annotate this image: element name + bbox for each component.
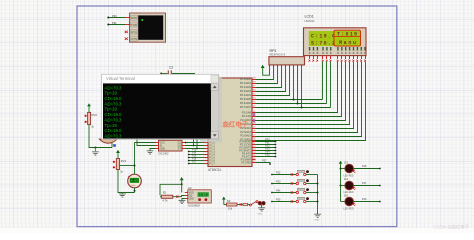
- net wire P1.5: [189, 157, 205, 159]
- pin cross: [240, 203, 242, 205]
- svg-text:P35: P35: [265, 153, 270, 157]
- wire RW vertical: [326, 62, 328, 104]
- svg-text:R2: R2: [163, 191, 167, 195]
- pin cross RTS: [125, 31, 128, 33]
- svg-text:D4: D4: [344, 177, 348, 181]
- svg-text:C:19.0: C:19.0: [311, 34, 335, 40]
- bus vertical wire: [317, 175, 319, 215]
- IC U3 body: [159, 140, 183, 151]
- net wire P1.7: [189, 163, 205, 165]
- svg-text:RV1: RV1: [121, 159, 127, 163]
- U2 pin names: [189, 191, 195, 200]
- svg-text:P35: P35: [276, 198, 281, 201]
- svg-text:Tp=19: Tp=19: [105, 123, 118, 128]
- window shadow: [219, 77, 222, 143]
- power VCC arrow: [339, 161, 343, 164]
- wire D1: [256, 62, 342, 117]
- svg-text:4.7k: 4.7k: [163, 199, 169, 203]
- svg-text:AD=70.3: AD=70.3: [105, 101, 123, 106]
- svg-text:0.85: 0.85: [131, 180, 138, 183]
- svg-text:P31: P31: [112, 21, 117, 25]
- svg-text:P17: P17: [192, 161, 197, 164]
- svg-text:AD=70.3: AD=70.3: [105, 117, 123, 122]
- LED D5: [341, 194, 381, 211]
- wire D5: [256, 62, 358, 133]
- svg-text:P2.1/A9: P2.1/A9: [242, 114, 252, 118]
- wire rp pin9 joins row P0.7: [301, 68, 303, 107]
- svg-text:Volts: Volts: [131, 184, 135, 187]
- svg-text:Manu: Manu: [339, 40, 356, 46]
- U3 left pin names: [160, 141, 166, 150]
- svg-text:P0.6/AD6: P0.6/AD6: [240, 101, 252, 105]
- node dot: [160, 73, 162, 75]
- wire rp pin8 joins row P0.6: [297, 68, 299, 103]
- P3.1 net stub: [256, 144, 276, 146]
- wire pot bottom: [118, 170, 135, 193]
- svg-text:P16: P16: [362, 165, 367, 168]
- pin CTS: [130, 36, 137, 41]
- wire rp pin4 to P0.2: [256, 68, 282, 87]
- svg-text:C3: C3: [169, 66, 173, 70]
- net wire P1.3: [189, 151, 205, 153]
- wire rp pin6 to P0.4: [256, 68, 290, 95]
- instrument VT1 body: [130, 13, 166, 42]
- wire D2: [256, 62, 346, 121]
- ground: [314, 214, 321, 217]
- svg-text:P30: P30: [112, 14, 117, 18]
- wire D3: [256, 62, 350, 125]
- svg-text:P10: P10: [362, 198, 367, 201]
- violet net-label marks on P2 wires: [253, 113, 255, 116]
- svg-text:P2.6/A14: P2.6/A14: [240, 134, 251, 138]
- pin cross CTS: [125, 38, 128, 40]
- wire pin1 to VCC: [263, 68, 270, 75]
- VCC rail: [340, 164, 342, 202]
- wire TXD net: [108, 24, 126, 26]
- scrollbar up button: [211, 83, 218, 90]
- resistor pack RP1 body: [269, 57, 305, 65]
- wire row P0.6 to LCD RW: [256, 103, 327, 105]
- svg-text:R3: R3: [227, 199, 231, 203]
- potentiometer RV1: [116, 159, 119, 170]
- wiper marks: [85, 115, 87, 117]
- vertical jog: [193, 139, 195, 146]
- svg-text:CD=19.0: CD=19.0: [105, 112, 123, 117]
- wire U3 Q1 to P1.0: [185, 142, 205, 144]
- junction: [94, 147, 96, 149]
- svg-text:GND: GND: [189, 198, 195, 201]
- instrument screen: [138, 15, 163, 39]
- push button SW2, net P33: [271, 179, 317, 184]
- svg-text:AD=70.3: AD=70.3: [105, 85, 123, 90]
- svg-text:DS18B20: DS18B20: [188, 203, 200, 207]
- pin stub TXD: [126, 24, 131, 26]
- junction: [181, 183, 183, 185]
- pin stub RXD: [126, 17, 131, 19]
- svg-text:P0.1/AD1: P0.1/AD1: [240, 81, 252, 85]
- ground: [258, 208, 265, 211]
- push button SW3, net P34: [271, 188, 317, 193]
- U2 display: [198, 192, 209, 197]
- ground: [147, 151, 154, 154]
- P3.5 net stub: [256, 156, 276, 158]
- svg-text:Tp=19: Tp=19: [105, 107, 118, 112]
- wire row P0.7 to LCD E: [256, 107, 331, 109]
- switch terminal: [249, 204, 251, 206]
- wire U3 Q2 to P1.1: [185, 145, 205, 147]
- svg-text:P2.0/A8: P2.0/A8: [242, 110, 252, 114]
- wire to R3: [224, 204, 227, 206]
- wire U3 VCC left: [135, 142, 156, 144]
- left pin stubs P1: [205, 143, 209, 164]
- wire rp pin2 to P0.0: [256, 68, 274, 79]
- pin RXD: [130, 15, 137, 20]
- sheet border frame: [77, 6, 397, 227]
- P3.0 net stub: [256, 141, 276, 143]
- left pin names: [205, 142, 207, 165]
- svg-text:P17: P17: [362, 182, 367, 185]
- power VCC arrow: [180, 177, 184, 180]
- net wire P1.6: [189, 160, 205, 162]
- svg-text:CD=19.0: CD=19.0: [105, 96, 123, 101]
- power VCC arrow: [116, 150, 120, 153]
- junction: [185, 142, 187, 144]
- wire wiper to meter line: [120, 165, 135, 167]
- blue origin marker: [113, 144, 116, 147]
- ground: [179, 200, 186, 203]
- svg-text:LM016L: LM016L: [305, 19, 316, 23]
- svg-text:U2: U2: [188, 186, 192, 190]
- junction: [297, 103, 299, 105]
- LCD screen: [309, 31, 361, 46]
- svg-text:P33: P33: [276, 180, 281, 183]
- U2 pin stubs: [185, 193, 188, 199]
- voltmeter display: [130, 178, 139, 183]
- svg-text:P0.5/AD5: P0.5/AD5: [240, 97, 252, 101]
- ground: [92, 148, 99, 156]
- voltmeter ring: [128, 174, 142, 188]
- svg-text:CTS: CTS: [131, 37, 137, 41]
- svg-text:GND: GND: [258, 214, 263, 216]
- svg-text:P32: P32: [276, 171, 281, 174]
- wire R2 to DQ: [173, 196, 185, 197]
- RP1 pin stubs: [270, 65, 302, 68]
- wire RS vertical: [322, 62, 324, 100]
- console text: [105, 85, 123, 138]
- ground: [119, 193, 126, 198]
- titlebar button: [211, 75, 218, 82]
- svg-text:P3.7/RD: P3.7/RD: [241, 161, 251, 165]
- power VCC arrow: [87, 103, 91, 106]
- svg-text:GND: GND: [315, 220, 320, 222]
- LED D3: [341, 161, 381, 178]
- svg-text:P34: P34: [276, 189, 281, 192]
- wire E vertical: [330, 62, 332, 108]
- svg-text:RESPACK-8: RESPACK-8: [270, 53, 286, 57]
- svg-text:RTS: RTS: [131, 30, 137, 34]
- svg-text:P37: P37: [262, 159, 267, 163]
- svg-text:19.0: 19.0: [199, 193, 208, 197]
- junction: [293, 99, 295, 101]
- wire rp pin5 to P0.3: [256, 68, 286, 91]
- svg-text:DS1302: DS1302: [159, 151, 170, 155]
- junctions: [317, 183, 319, 185]
- wiper marks: [113, 161, 115, 163]
- wire pot to junction: [89, 125, 112, 148]
- svg-text:ST: ST: [178, 148, 182, 151]
- wire D6: [256, 62, 362, 137]
- red highlight box: [334, 30, 361, 46]
- svg-text:AT89C51: AT89C51: [208, 168, 221, 172]
- svg-text:GND: GND: [160, 148, 166, 151]
- resistor R3: [227, 203, 238, 206]
- net wire P1.4: [189, 154, 205, 156]
- U3 right pin names: [178, 141, 182, 150]
- wire: [248, 204, 250, 206]
- P3.7 net stub: [256, 163, 271, 165]
- wire row P0.5 to LCD RS: [256, 99, 323, 101]
- motor terminals: [258, 201, 262, 205]
- svg-text:Tp=19: Tp=19: [105, 91, 118, 96]
- LCD pin stubs: [310, 56, 366, 59]
- wire R2 left: [160, 196, 161, 198]
- wire U3 GND left: [150, 149, 156, 151]
- right pin numbers: [253, 78, 256, 164]
- LCD pin crosses: [308, 59, 366, 61]
- svg-text:10k: 10k: [228, 207, 233, 211]
- wire rp pin7 joins row P0.5: [293, 68, 295, 99]
- svg-text:CD=19.0: CD=19.0: [105, 128, 123, 133]
- wire rp pin3 to P0.1: [256, 68, 278, 83]
- junction: [134, 190, 136, 192]
- window frame: [102, 74, 219, 139]
- push button SW1, net P32: [271, 170, 317, 175]
- svg-text:CSDN @森红电子: CSDN @森红电子: [434, 223, 470, 230]
- meter U4 bottom arc (behind window): [99, 139, 117, 143]
- wire VCC to R2: [160, 184, 182, 195]
- P3.3 net stub: [256, 150, 276, 152]
- svg-text:S:70.2: S:70.2: [311, 40, 335, 46]
- switch lever: [251, 201, 257, 205]
- blue marker: [151, 137, 153, 139]
- svg-text:AD=70.3: AD=70.3: [105, 133, 123, 138]
- push button SW4, net P35: [271, 197, 317, 202]
- svg-text:LED-RED: LED-RED: [344, 209, 354, 211]
- wire U3 X1 left: [137, 139, 156, 146]
- junction: [301, 107, 303, 109]
- svg-text:Virtual Terminal: Virtual Terminal: [106, 76, 135, 81]
- potentiometer RV2: [88, 112, 91, 124]
- vertical jog: [196, 139, 198, 149]
- svg-text:P1.7: P1.7: [210, 162, 216, 166]
- buzzer stem wire: [111, 143, 113, 148]
- pin TXD: [130, 22, 137, 27]
- wire meter bottom: [134, 188, 136, 193]
- svg-text:P0.2/AD2: P0.2/AD2: [240, 85, 252, 89]
- wire D4: [256, 62, 354, 129]
- P3.4 net stub: [256, 153, 276, 155]
- svg-text:P0.7/AD7: P0.7/AD7: [240, 105, 252, 109]
- svg-text:RXD: RXD: [131, 16, 138, 20]
- junction: [134, 165, 136, 167]
- U3 pin stubs: [156, 143, 185, 149]
- wire D7: [256, 62, 366, 141]
- pin RTS: [130, 29, 137, 34]
- svg-text:TXD: TXD: [131, 23, 138, 27]
- svg-text:RV2: RV2: [92, 113, 98, 117]
- scrollbar track: [211, 83, 218, 138]
- wire: [161, 73, 167, 75]
- power arrow: [222, 197, 226, 200]
- wire R3 right: [237, 204, 243, 206]
- svg-text:P0.3/AD3: P0.3/AD3: [240, 89, 252, 93]
- junctions: [340, 168, 342, 170]
- DS18B20 U2 body: [188, 190, 212, 203]
- wire RXD net: [108, 17, 126, 19]
- MCU U1 body: [208, 78, 252, 167]
- pin cross: [176, 196, 178, 198]
- vertical wire from U3 area to meter: [134, 143, 136, 175]
- right pin names: [239, 77, 251, 165]
- svg-text:P0.0/AD0: P0.0/AD0: [240, 77, 252, 81]
- svg-text:P2.5/A13: P2.5/A13: [240, 130, 251, 134]
- right pin stubs P0 P2 P3: [252, 80, 256, 163]
- wire GND: [182, 199, 185, 201]
- small element: [243, 203, 248, 205]
- LCD pin numbers row: [309, 52, 366, 54]
- svg-text:森红电子: 森红电子: [223, 120, 249, 129]
- console area: [103, 83, 211, 138]
- power VCC arrow: [261, 65, 265, 68]
- P3.2 net stub: [256, 147, 276, 149]
- wire down to ground: [261, 205, 263, 208]
- svg-text:P0.4/AD4: P0.4/AD4: [240, 93, 252, 97]
- scrollbar down button: [211, 132, 218, 139]
- LCD pin names row: [309, 47, 366, 51]
- U2 buttons: [198, 198, 201, 201]
- LCD body: [304, 28, 367, 56]
- resistor R2: [161, 195, 173, 198]
- LED D4: [341, 177, 381, 194]
- wire: [172, 73, 195, 75]
- wire D0: [256, 62, 338, 113]
- wire U3 ST to P1.2: [185, 148, 205, 150]
